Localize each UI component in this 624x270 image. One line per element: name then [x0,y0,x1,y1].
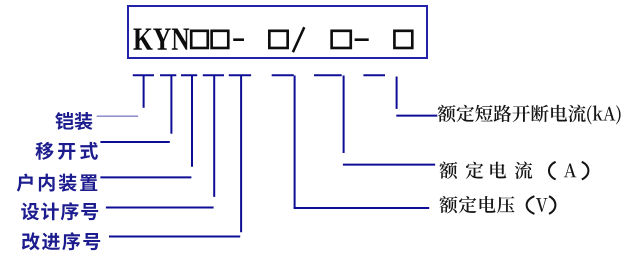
fullwidth paren ) [582,162,589,180]
leader line sheji [106,207,214,209]
label yikaishi (withdrawable) [36,142,98,160]
square 3 (rated voltage) [269,31,287,48]
label huneizhuangzhi (indoor) [17,174,98,192]
label gaijin xuhao (improvement serial) [22,232,100,250]
leader vertical N [191,76,193,167]
leader vertical current [343,76,345,154]
leader vertical breaking [396,77,398,109]
T-bar under K [133,74,154,76]
model designation box [128,6,427,58]
leader vertical voltage [294,76,296,209]
fullwidth paren ( [527,196,535,214]
square 5 (breaking current) [394,31,412,48]
label rated voltage [440,196,515,213]
bar under square 4 [314,74,342,76]
leader line voltage [294,207,430,209]
label rated short-circuit breaking current [438,105,586,122]
leader vertical Y [170,76,172,134]
label sheji xuhao (design serial) [21,202,98,220]
leader line breaking [396,115,437,117]
label rated current [440,162,458,179]
glyph 流 [515,161,532,178]
label kaizhuang (armored) [55,112,92,130]
label (kA) [587,105,620,124]
slash [293,27,304,52]
T-bar under N [181,74,197,76]
leader vertical K [143,76,145,108]
glyph V [536,198,548,212]
leader line hunei [100,176,191,178]
fullwidth paren ( [549,162,556,180]
T-bar under square 1 [203,74,224,76]
leader line gaijin [109,236,240,238]
leader vertical square2 [240,76,242,233]
leader line kaizhuang [97,115,139,117]
leader vertical square1 [213,76,215,197]
bar under square 5 [363,74,385,76]
dash 1 [233,38,244,41]
square 1 (design serial) [191,31,208,48]
T-bar under square 2 [229,74,251,76]
glyph A [564,164,577,178]
dash 2 [355,38,369,41]
square 2 (improvement serial) [212,31,229,48]
glyph 电 [490,162,506,179]
square 4 (rated current) [332,31,351,48]
leader line yikai [100,141,169,143]
glyph 定 [466,162,483,179]
leader line current [343,164,435,166]
fullwidth paren ) [549,196,555,214]
T-bar under Y [160,74,176,76]
text KYN [133,29,189,50]
bar under square 3 [272,74,294,76]
